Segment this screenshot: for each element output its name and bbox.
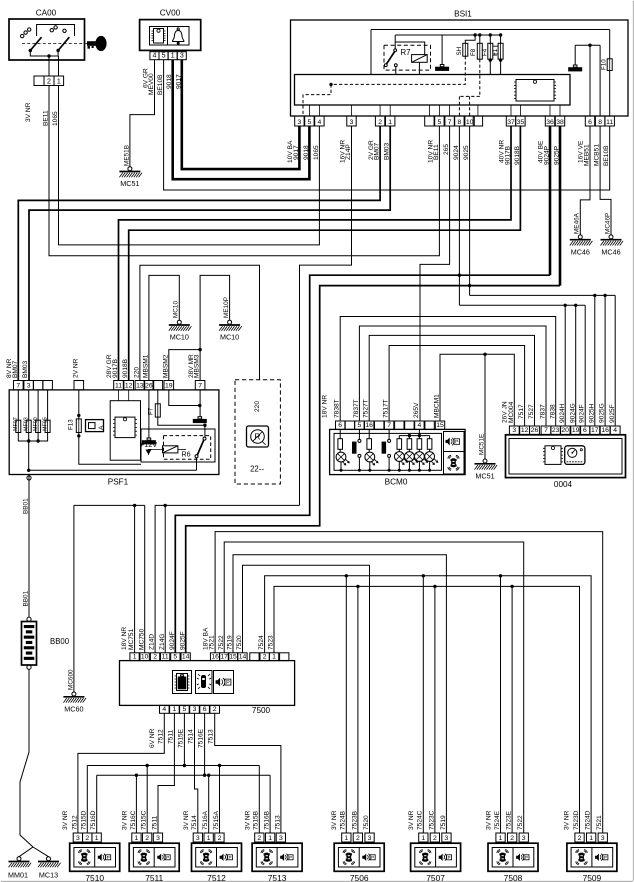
svg-text:7513: 7513: [208, 729, 215, 744]
PSF1 box: [9, 390, 219, 487]
wire MBSM1 to ground MC10: [149, 275, 179, 380]
svg-text:1: 1: [171, 53, 175, 60]
7508 connector pins: [496, 833, 528, 842]
BSI1 internal IC: [514, 80, 556, 102]
label 7524 7500: [258, 635, 265, 650]
svg-text:3: 3: [445, 835, 449, 842]
wire 9017 thick: [182, 60, 300, 169]
label 220 option: [254, 401, 261, 412]
svg-text:3V NR: 3V NR: [564, 810, 571, 830]
label MC46P: [604, 213, 611, 234]
svg-text:20: 20: [561, 427, 569, 434]
wire BE11: [49, 86, 439, 256]
svg-text:1: 1: [135, 835, 139, 842]
label 3V NR 7506: [331, 810, 338, 830]
svg-text:10: 10: [141, 653, 149, 660]
ground MM01: [8, 857, 31, 880]
svg-text:36: 36: [546, 119, 554, 126]
svg-text:7514: 7514: [191, 815, 198, 830]
wire battery top: [28, 616, 30, 619]
label MC51E: [478, 434, 485, 455]
svg-text:1: 1: [272, 653, 276, 660]
PSF1 internal ground pin26: [142, 390, 156, 445]
label MC750 7500: [138, 628, 145, 650]
svg-text:7837: 7837: [540, 404, 547, 419]
svg-text:A: A: [98, 425, 105, 430]
option module R icon: [247, 426, 269, 447]
svg-text:Z14P: Z14P: [345, 144, 352, 160]
svg-text:6: 6: [338, 422, 342, 429]
label Z14G 7500: [159, 634, 166, 651]
svg-text:MC51: MC51: [475, 472, 494, 481]
svg-text:PSF1: PSF1: [108, 478, 129, 487]
svg-text:MF00: MF00: [33, 417, 39, 431]
label MC751 7500: [128, 628, 135, 650]
wire BM03: [29, 126, 390, 381]
svg-text:220: 220: [133, 367, 140, 378]
fuse F4: [481, 35, 493, 75]
label 40V BE: [538, 140, 545, 163]
svg-text:MC10: MC10: [173, 301, 180, 318]
svg-text:MC46P: MC46P: [604, 213, 611, 234]
svg-text:3: 3: [196, 835, 200, 842]
label 9017: [175, 74, 182, 89]
svg-text:P: P: [107, 855, 110, 860]
label 7519 7500: [227, 635, 234, 650]
svg-text:P: P: [289, 855, 292, 860]
keypad unit 7512 box: [192, 843, 242, 882]
keypad unit 7510 box: [70, 843, 120, 882]
relay R7 dashed box: [384, 45, 431, 70]
svg-text:6: 6: [203, 706, 207, 713]
label 7522 7500: [218, 635, 225, 650]
svg-text:9024F: 9024F: [579, 404, 586, 423]
svg-text:CV00: CV00: [160, 9, 181, 18]
BCM0 lamp branch 419.4: [415, 436, 428, 471]
wire battery negative to grounds: [19, 669, 49, 856]
svg-text:MC51E: MC51E: [478, 434, 485, 455]
wire 265: [420, 126, 450, 421]
wire 7522 net: [224, 542, 524, 833]
svg-text:7520: 7520: [363, 815, 370, 830]
label MC004 0004: [508, 401, 515, 423]
CA00 actuating dashed link: [22, 43, 92, 45]
svg-text:P: P: [166, 855, 169, 860]
wire MEB51 to ground: [580, 126, 590, 235]
svg-text:26: 26: [531, 427, 539, 434]
wire 7837T: [359, 326, 546, 426]
label 7837 0004: [540, 404, 547, 419]
CA00 switch contacts: [21, 26, 67, 38]
svg-text:7524D: 7524D: [585, 810, 592, 830]
svg-text:5: 5: [162, 53, 166, 60]
wire Z14P: [155, 126, 351, 653]
svg-text:3: 3: [156, 835, 160, 842]
BCM0 car remote cell: [444, 452, 465, 475]
PSF1 fuse F13: [68, 390, 142, 464]
svg-text:9017B: 9017B: [112, 358, 119, 378]
BSI internal ground node wire: [575, 44, 600, 117]
svg-text:2: 2: [510, 835, 514, 842]
svg-text:7517T: 7517T: [383, 399, 390, 418]
svg-text:MC46: MC46: [571, 247, 590, 256]
7511 connector pins: [132, 833, 163, 842]
svg-text:3: 3: [279, 835, 283, 842]
svg-text:MBCM1: MBCM1: [434, 394, 441, 418]
svg-text:2: 2: [145, 835, 149, 842]
label 7516A 7512: [202, 810, 209, 830]
label 3V NR 7510: [62, 810, 69, 830]
battery BB00: [22, 617, 70, 669]
label 7512 7500 bottom: [157, 729, 164, 744]
wire MBSM2: [169, 348, 202, 381]
label 9024F 7500: [169, 631, 176, 650]
svg-text:7515C: 7515C: [141, 810, 148, 830]
svg-text:18V NR: 18V NR: [121, 627, 128, 650]
svg-text:7515A: 7515A: [213, 810, 220, 830]
PSF1 relay R6 area box: [141, 429, 215, 462]
PSF1 +12V supply: [140, 440, 163, 455]
label 3V NR 7513: [244, 810, 251, 830]
svg-text:7515B: 7515B: [253, 810, 260, 830]
svg-text:7515E: 7515E: [177, 728, 184, 748]
label 7521 7509: [596, 815, 603, 830]
BCM0 lamp pin6: [336, 429, 349, 470]
wire 7520 net: [243, 565, 370, 833]
svg-text:+12V: +12V: [140, 440, 158, 449]
label 7524E 7508: [494, 810, 501, 830]
svg-text:MC60: MC60: [64, 705, 83, 714]
wire 7516 net: [97, 713, 270, 833]
svg-text:7509: 7509: [583, 873, 602, 882]
PSF1 internal fuse MF00: [33, 390, 41, 433]
svg-text:3V NR: 3V NR: [122, 810, 129, 830]
CA00 internal wiring to pins: [30, 51, 58, 60]
svg-text:BE11: BE11: [43, 110, 50, 126]
label MBSM1: [142, 354, 149, 378]
svg-text:7: 7: [198, 383, 202, 390]
label 7523E 7508: [506, 810, 513, 830]
label 7511 7500 bottom: [167, 729, 174, 744]
BSI internal ground right: [568, 65, 582, 71]
wire 7521 net: [215, 532, 603, 833]
label ME46A: [574, 212, 581, 234]
svg-text:9024G: 9024G: [569, 403, 576, 423]
relay R7 coil: [412, 55, 428, 63]
wire 7513 net: [215, 713, 281, 833]
ground MC51 center: [475, 459, 498, 481]
svg-text:1065: 1065: [52, 111, 59, 126]
svg-text:BSI1: BSI1: [454, 10, 472, 19]
0004 connector pin boxes: [509, 426, 620, 434]
svg-text:1: 1: [421, 835, 425, 842]
svg-text:MC46: MC46: [601, 247, 620, 256]
svg-text:7527T: 7527T: [363, 399, 370, 418]
BCM0 bottom rail dots: [340, 469, 432, 472]
keypad unit 7508 box: [488, 843, 538, 882]
svg-text:5: 5: [173, 653, 177, 660]
label 7523 7500: [268, 635, 275, 650]
svg-text:5: 5: [358, 422, 362, 429]
svg-text:19: 19: [572, 427, 580, 434]
7509 connector pins: [575, 833, 607, 842]
svg-text:3: 3: [180, 53, 184, 60]
svg-text:BB00: BB00: [50, 637, 70, 646]
wire 7517T: [389, 346, 524, 427]
wire 7511 net: [158, 713, 174, 833]
keypad unit 7507 box: [411, 843, 461, 882]
svg-text:12: 12: [521, 427, 529, 434]
BSI internal dashed net left: [303, 56, 465, 116]
BSI internal dashed net right: [459, 59, 479, 116]
label 7517 0004: [518, 404, 525, 419]
svg-text:3V NR: 3V NR: [331, 810, 338, 830]
buzzer module CV00 box: [140, 9, 201, 51]
label 9018: [166, 74, 173, 89]
wire 9018 thick: [173, 60, 310, 180]
label 18V NR 7500: [121, 627, 128, 650]
svg-text:BM07: BM07: [12, 360, 19, 378]
label 28V MR: [188, 354, 195, 378]
wire 9018B: [129, 126, 521, 381]
relay R7 wiring: [395, 35, 425, 75]
svg-text:ME46A: ME46A: [574, 212, 581, 234]
svg-text:F1: F1: [492, 48, 499, 56]
svg-text:11: 11: [115, 383, 122, 390]
svg-text:Z14D: Z14D: [149, 634, 156, 650]
PSF1 internal IC box: [110, 390, 140, 460]
label 9025F 0004: [609, 404, 616, 423]
svg-text:MEV00: MEV00: [148, 73, 155, 95]
svg-text:12: 12: [125, 383, 133, 390]
label 3V NR 7507: [408, 810, 415, 830]
BCM0 switch pin5: [352, 429, 361, 470]
wire 7527T: [369, 335, 534, 426]
7507 connector pins: [419, 833, 451, 842]
label BE10B: [157, 74, 164, 95]
PSF1 connector pin boxes: [14, 381, 205, 390]
wire 7524 net: [265, 574, 591, 833]
svg-text:F13: F13: [68, 419, 75, 430]
label 7527T: [363, 399, 370, 418]
wire BB01 from PSF1: [27, 475, 31, 617]
label 9017B: [112, 358, 119, 378]
svg-text:F7: F7: [148, 407, 155, 415]
label 3V NR 7509: [564, 810, 571, 830]
svg-text:6V NR: 6V NR: [149, 728, 156, 748]
svg-text:MEB51: MEB51: [583, 144, 590, 166]
svg-text:7527: 7527: [528, 404, 535, 419]
keypad unit 7513 box: [252, 843, 302, 882]
ground MC46 right: [601, 235, 624, 257]
svg-text:3V NR: 3V NR: [25, 102, 32, 122]
wire MCB51 to ground: [600, 126, 611, 235]
label 7511 7511: [151, 815, 158, 830]
label 40V NR: [499, 140, 506, 163]
PSF1 relay R6 switch dashed box: [164, 436, 211, 460]
svg-text:1: 1: [499, 835, 503, 842]
BCM0 connector pin boxes: [336, 421, 445, 429]
label 9025: [463, 145, 470, 160]
svg-text:1: 1: [95, 835, 99, 842]
label 9018B: [514, 145, 521, 165]
CA00 contact feed frame: [37, 25, 75, 37]
BSI1 connector pin boxes: [295, 116, 615, 126]
svg-text:10: 10: [466, 119, 474, 126]
label 3V NR 7512: [183, 810, 190, 830]
PSF1 fuse bus: [18, 433, 47, 471]
PSF1 internal fuse MF07: [13, 390, 21, 433]
label 9018B: [122, 358, 129, 378]
label 7517T: [383, 399, 390, 418]
label ME10P: [223, 297, 230, 318]
svg-text:7515D: 7515D: [81, 810, 88, 830]
svg-text:MCB51: MCB51: [594, 144, 601, 166]
label 7837T: [353, 399, 360, 418]
svg-text:14: 14: [182, 653, 190, 660]
wire MEV00 to ground: [130, 60, 155, 167]
svg-text:2: 2: [378, 119, 382, 126]
svg-text:P: P: [228, 855, 231, 860]
label 7838T: [334, 399, 341, 418]
label 7524C 7507: [417, 810, 424, 830]
0004 internal IC: [543, 446, 563, 465]
label 16V NR: [339, 140, 346, 163]
svg-text:7524C: 7524C: [417, 810, 424, 830]
BSI internal ground near R7: [435, 35, 449, 71]
svg-text:0004: 0004: [554, 480, 573, 489]
label MC600: [67, 669, 74, 690]
PSF1 module icon A: [86, 420, 106, 432]
svg-text:1: 1: [133, 653, 137, 660]
svg-text:7511: 7511: [167, 729, 174, 744]
svg-text:BB01: BB01: [23, 498, 30, 514]
label 7512 7510: [71, 815, 78, 830]
wire 7514 net: [195, 713, 198, 833]
label 9024: [453, 145, 460, 160]
7512 connector pins: [193, 833, 224, 842]
PSF1 internal fuse MF03: [24, 390, 32, 433]
label 9024F 0004: [579, 404, 586, 423]
svg-text:7: 7: [387, 422, 391, 429]
svg-text:9017: 9017: [293, 145, 300, 160]
svg-text:16: 16: [211, 653, 219, 660]
svg-text:7516E: 7516E: [198, 728, 205, 748]
svg-text:265V: 265V: [413, 402, 420, 418]
wire 7523 net: [274, 585, 580, 833]
svg-text:38: 38: [556, 119, 564, 126]
label MBSM2: [162, 354, 169, 378]
fuse pair links: [493, 46, 499, 54]
svg-text:9018B: 9018B: [122, 358, 129, 378]
label 2V NR: [72, 358, 79, 378]
svg-text:P: P: [525, 855, 528, 860]
ground MC46 left: [570, 235, 593, 257]
wire 7838T: [340, 317, 556, 427]
svg-text:7510: 7510: [85, 873, 104, 882]
label 7523D 7509: [573, 810, 580, 830]
BCM0 speaker cell: [444, 432, 465, 452]
svg-text:7837T: 7837T: [353, 399, 360, 418]
svg-text:265: 265: [443, 144, 450, 155]
label 9025H 0004: [588, 403, 595, 423]
svg-text:3V NR: 3V NR: [408, 810, 415, 830]
ignition switch CA00 box: [9, 9, 85, 61]
svg-text:MBSM3: MBSM3: [194, 354, 201, 378]
PSF1 relay R6 coil: [163, 446, 191, 459]
label 7516B 7513: [264, 810, 271, 830]
label MCB51: [594, 144, 601, 166]
BCM0 lamp branch 429.6: [425, 436, 438, 471]
label 9024P: [543, 145, 550, 165]
svg-text:ME51B: ME51B: [123, 145, 130, 166]
svg-text:7511: 7511: [145, 873, 163, 882]
label ME51B: [123, 145, 130, 166]
label 7521 7500: [209, 635, 216, 650]
label MC10 wire: [173, 301, 180, 318]
label 7516D 7510: [90, 810, 97, 830]
svg-text:1: 1: [268, 835, 272, 842]
svg-text:9025F: 9025F: [179, 631, 186, 650]
keypad unit 7511 box: [129, 843, 179, 882]
svg-text:2: 2: [47, 78, 51, 85]
svg-text:7523E: 7523E: [506, 810, 513, 830]
svg-text:7: 7: [448, 119, 452, 126]
BCM0 lamp pin16: [365, 429, 378, 470]
svg-text:MC10: MC10: [170, 333, 189, 342]
label 7523B 7506: [351, 810, 358, 830]
svg-text:Z14G: Z14G: [159, 634, 166, 651]
svg-text:7516D: 7516D: [90, 810, 97, 830]
PSF1 internal fuse MF05: [43, 390, 51, 433]
label MEV00: [148, 73, 155, 95]
svg-text:9025: 9025: [463, 145, 470, 160]
wire 9017B: [119, 126, 512, 381]
label BE11: [433, 144, 440, 160]
label 6V GR: [142, 68, 149, 88]
svg-text:2: 2: [257, 835, 261, 842]
svg-text:P: P: [448, 855, 451, 860]
option module dashed box 22--: [235, 380, 280, 484]
wire 1065: [59, 86, 320, 245]
label 7524D 7509: [585, 810, 592, 830]
label 18V BA 7500: [203, 627, 210, 650]
svg-text:7: 7: [16, 383, 20, 390]
PSF1 relay R6 switch: [195, 424, 207, 471]
svg-text:13: 13: [136, 383, 144, 390]
BCM0 lamp branch 409.4: [405, 436, 418, 471]
label BB01 upper: [23, 498, 30, 514]
svg-text:7508: 7508: [504, 873, 523, 882]
svg-text:3V NR: 3V NR: [244, 810, 251, 830]
label 18V NR: [322, 395, 329, 418]
svg-text:3: 3: [298, 119, 302, 126]
wire 9024 taps to 0004: [459, 304, 585, 426]
BCM0 lamp branch 399.3: [394, 436, 407, 471]
svg-text:7512: 7512: [71, 815, 78, 830]
svg-text:7523B: 7523B: [351, 810, 358, 830]
label 3V NR 7508: [485, 810, 492, 830]
label 7520 7500: [236, 635, 243, 650]
svg-text:7: 7: [544, 427, 548, 434]
wire BE10B long: [164, 60, 610, 190]
label 7515D 7510: [81, 810, 88, 830]
svg-text:7511: 7511: [151, 815, 158, 830]
label Z14D 7500: [149, 634, 156, 650]
label 7516C 7511: [130, 810, 137, 830]
label 22--: [250, 465, 264, 474]
svg-text:BB01: BB01: [23, 590, 30, 606]
